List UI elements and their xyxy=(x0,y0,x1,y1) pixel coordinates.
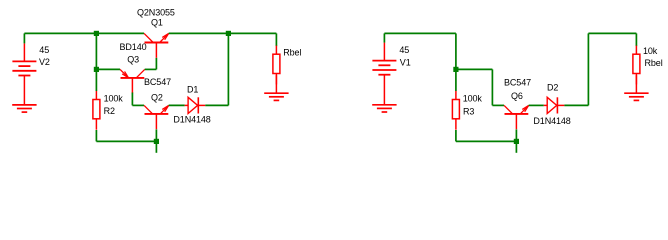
svg-text:100k: 100k xyxy=(104,94,124,104)
svg-text:D2: D2 xyxy=(547,83,558,93)
svg-text:D1: D1 xyxy=(187,84,198,94)
svg-text:V1: V1 xyxy=(400,57,411,67)
svg-text:Rbel: Rbel xyxy=(283,48,301,58)
svg-text:Q3: Q3 xyxy=(127,55,139,65)
svg-text:Q2N3055: Q2N3055 xyxy=(137,7,175,17)
svg-text:R2: R2 xyxy=(104,106,115,116)
svg-text:45: 45 xyxy=(39,45,49,55)
svg-text:V2: V2 xyxy=(39,57,50,67)
svg-text:Rbel: Rbel xyxy=(645,58,663,68)
svg-text:BC547: BC547 xyxy=(144,77,171,87)
svg-text:BD140: BD140 xyxy=(120,42,147,52)
svg-text:Q1: Q1 xyxy=(151,18,163,28)
svg-text:10k: 10k xyxy=(643,46,658,56)
svg-text:Q6: Q6 xyxy=(511,91,523,101)
svg-text:45: 45 xyxy=(399,45,409,55)
svg-text:D1N4148: D1N4148 xyxy=(173,114,210,124)
svg-text:D1N4148: D1N4148 xyxy=(533,116,570,126)
svg-text:R3: R3 xyxy=(463,107,474,117)
svg-text:BC547: BC547 xyxy=(504,77,531,87)
svg-text:100k: 100k xyxy=(463,94,483,104)
svg-text:Q2: Q2 xyxy=(151,93,163,103)
